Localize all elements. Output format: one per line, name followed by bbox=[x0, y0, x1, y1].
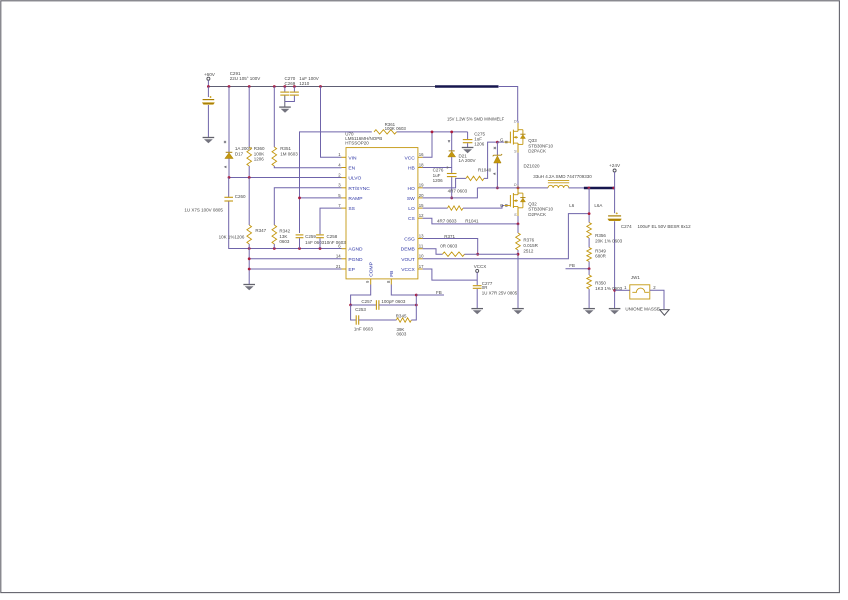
svg-text:2512: 2512 bbox=[523, 248, 534, 253]
svg-text:VIN: VIN bbox=[348, 155, 357, 161]
svg-text:L6: L6 bbox=[569, 203, 575, 208]
svg-text:12: 12 bbox=[419, 213, 424, 218]
junctions on AGND line bbox=[248, 247, 322, 250]
terminal +24V bbox=[609, 163, 621, 188]
diode D21 bbox=[448, 131, 476, 168]
wire +60V to Q33 drain bbox=[498, 87, 518, 122]
svg-text:RAMP: RAMP bbox=[348, 196, 362, 202]
capacitor C291 bbox=[202, 71, 260, 137]
svg-text:20: 20 bbox=[419, 193, 424, 198]
wire CS bbox=[423, 218, 520, 225]
svg-text:C269: C269 bbox=[285, 81, 296, 86]
svg-text:1U X7S 100V 0805: 1U X7S 100V 0805 bbox=[184, 208, 223, 213]
svg-text:2: 2 bbox=[653, 285, 656, 290]
svg-text:10K 1%1206: 10K 1%1206 bbox=[219, 234, 245, 239]
svg-text:1uF: 1uF bbox=[433, 173, 441, 178]
capacitor C259 bbox=[296, 234, 325, 248]
svg-text:+24V: +24V bbox=[609, 163, 621, 168]
svg-text:EN: EN bbox=[348, 166, 355, 172]
svg-text:D17: D17 bbox=[235, 151, 244, 156]
capacitor C277 bbox=[473, 281, 518, 309]
svg-text:11: 11 bbox=[419, 244, 424, 249]
svg-text:R1040: R1040 bbox=[478, 167, 492, 172]
svg-text:20K 1% 0603: 20K 1% 0603 bbox=[595, 238, 623, 243]
svg-text:FB: FB bbox=[389, 271, 395, 277]
svg-text:R351: R351 bbox=[280, 146, 291, 151]
svg-text:DZ1020: DZ1020 bbox=[524, 164, 541, 169]
svg-text:9: 9 bbox=[365, 280, 370, 283]
transistor Q33 bbox=[497, 118, 553, 187]
ground below C277 bbox=[471, 309, 483, 315]
svg-text:STB30NF10: STB30NF10 bbox=[528, 207, 553, 212]
wire HB bbox=[423, 166, 452, 169]
svg-text:VCC: VCC bbox=[404, 155, 415, 161]
svg-text:100K: 100K bbox=[254, 151, 265, 156]
transistor Q32 bbox=[500, 182, 554, 224]
svg-text:ULVO: ULVO bbox=[348, 176, 361, 182]
wire VOUT sense bbox=[423, 214, 589, 259]
resistor R1040 bbox=[423, 142, 498, 193]
svg-text:CS: CS bbox=[408, 216, 416, 222]
svg-text:18: 18 bbox=[419, 162, 424, 167]
svg-text:G: G bbox=[500, 138, 504, 143]
resistor R350 bbox=[587, 269, 623, 309]
resistor R361 bbox=[374, 122, 468, 134]
svg-text:10nF 0603: 10nF 0603 bbox=[324, 240, 346, 245]
svg-text:R347: R347 bbox=[255, 228, 266, 233]
resistor R345 bbox=[396, 305, 417, 337]
svg-text:4: 4 bbox=[338, 162, 341, 167]
net FB stub bbox=[416, 290, 444, 295]
capacitor C253 bbox=[351, 305, 397, 332]
terminal +60V bbox=[204, 72, 216, 87]
terminal VCCX bbox=[423, 264, 487, 285]
svg-text:100uF EL 50V BESR 8x12: 100uF EL 50V BESR 8x12 bbox=[638, 224, 692, 229]
svg-text:16: 16 bbox=[419, 152, 424, 157]
svg-text:680R: 680R bbox=[595, 254, 607, 259]
svg-text:HO: HO bbox=[407, 186, 415, 192]
svg-text:14: 14 bbox=[336, 254, 341, 259]
svg-text:LO: LO bbox=[408, 206, 415, 212]
svg-text:STB30NF10: STB30NF10 bbox=[528, 143, 553, 148]
junctions on +60V bus bbox=[207, 85, 322, 88]
svg-text:7: 7 bbox=[338, 203, 341, 208]
svg-text:1: 1 bbox=[624, 285, 627, 290]
capacitor C274 bbox=[608, 188, 691, 309]
resistor R342 bbox=[272, 188, 342, 249]
net FB flag bbox=[566, 263, 591, 270]
svg-text:33uH 4.2A SMD 7447709330: 33uH 4.2A SMD 7447709330 bbox=[533, 174, 592, 179]
svg-text:0603: 0603 bbox=[279, 239, 290, 244]
svg-text:VCCX: VCCX bbox=[401, 267, 415, 273]
svg-text:0603: 0603 bbox=[397, 332, 407, 337]
wire CSG bbox=[423, 234, 480, 255]
svg-text:1206: 1206 bbox=[433, 178, 444, 183]
wire VCC pin to rail bbox=[423, 131, 434, 158]
resistor R371 bbox=[423, 244, 518, 257]
wire SW pin bbox=[423, 188, 478, 198]
resistor R351 bbox=[272, 87, 342, 168]
svg-text:FB: FB bbox=[569, 263, 575, 268]
svg-text:100K 0603: 100K 0603 bbox=[385, 126, 407, 131]
capacitor C275 bbox=[463, 132, 486, 148]
svg-text:1nF 0603: 1nF 0603 bbox=[305, 240, 325, 245]
wire VIN bbox=[321, 87, 342, 158]
wire COMP bbox=[349, 285, 371, 307]
svg-text:D2PACK: D2PACK bbox=[528, 149, 546, 154]
svg-text:RT/SYNC: RT/SYNC bbox=[348, 186, 370, 192]
svg-text:R350: R350 bbox=[595, 280, 606, 285]
resistor R356 bbox=[587, 223, 623, 248]
svg-text:HTSSOP20: HTSSOP20 bbox=[345, 140, 369, 145]
zener DZ1020 bbox=[493, 141, 540, 190]
svg-text:C259: C259 bbox=[305, 234, 316, 239]
svg-text:C253: C253 bbox=[355, 307, 366, 312]
svg-text:R1041: R1041 bbox=[465, 219, 479, 224]
resistor R1041 bbox=[423, 206, 505, 224]
svg-text:0R: 0R bbox=[482, 285, 488, 290]
label zener rating bbox=[447, 117, 505, 122]
wire AGND PGND EP bbox=[248, 249, 342, 285]
svg-text:C258: C258 bbox=[327, 234, 338, 239]
wire divider top bbox=[569, 188, 602, 223]
svg-text:17: 17 bbox=[419, 264, 424, 269]
svg-text:22U 105° 100V: 22U 105° 100V bbox=[230, 76, 261, 81]
svg-text:C260: C260 bbox=[235, 194, 246, 199]
svg-text:EP: EP bbox=[348, 267, 355, 273]
svg-text:Q32: Q32 bbox=[528, 201, 537, 206]
svg-text:19: 19 bbox=[419, 183, 424, 188]
svg-text:R360: R360 bbox=[254, 146, 265, 151]
svg-text:R342: R342 bbox=[279, 228, 290, 233]
ground below C270 bbox=[279, 107, 291, 113]
resistor R349 bbox=[587, 248, 607, 269]
svg-text:100pF 0603: 100pF 0603 bbox=[381, 299, 406, 304]
wire FB pin bbox=[391, 285, 417, 306]
ground below R350 bbox=[583, 309, 595, 315]
svg-text:HB: HB bbox=[408, 166, 415, 172]
diode D17 bbox=[224, 87, 252, 178]
svg-text:SS: SS bbox=[348, 206, 355, 212]
svg-text:CSG: CSG bbox=[404, 237, 415, 243]
svg-text:D: D bbox=[514, 118, 517, 123]
inductor L6 33uH bbox=[533, 174, 592, 188]
svg-text:10: 10 bbox=[419, 254, 424, 259]
capacitor C269 bbox=[285, 81, 310, 102]
svg-text:FB: FB bbox=[436, 290, 442, 295]
resistor R360 bbox=[247, 87, 265, 178]
svg-text:S: S bbox=[514, 149, 517, 154]
wire ULVO line bbox=[228, 176, 342, 179]
svg-text:AGND: AGND bbox=[348, 247, 363, 253]
resistor R376 shunt bbox=[516, 224, 539, 309]
svg-text:S: S bbox=[514, 212, 517, 217]
svg-text:15V 1.2W 5% SMD MINIMELF: 15V 1.2W 5% SMD MINIMELF bbox=[447, 117, 505, 122]
svg-text:13K: 13K bbox=[279, 234, 287, 239]
svg-text:3: 3 bbox=[338, 183, 341, 188]
wire +60V bus bbox=[208, 86, 436, 88]
capacitor C260 bbox=[184, 178, 341, 249]
svg-text:C276: C276 bbox=[433, 168, 444, 173]
op-amp U70 LM5116 bbox=[336, 131, 424, 284]
svg-text:R371: R371 bbox=[444, 234, 455, 239]
svg-text:0.015R: 0.015R bbox=[523, 243, 538, 248]
svg-text:1U X7R 25V 0805: 1U X7R 25V 0805 bbox=[482, 291, 518, 296]
svg-text:Q33: Q33 bbox=[528, 138, 537, 143]
svg-text:C257: C257 bbox=[361, 299, 372, 304]
svg-text:8: 8 bbox=[386, 280, 391, 283]
svg-text:13: 13 bbox=[419, 233, 424, 238]
svg-text:15: 15 bbox=[419, 203, 424, 208]
svg-text:5: 5 bbox=[338, 193, 341, 198]
svg-text:PGND: PGND bbox=[348, 257, 363, 263]
svg-text:21: 21 bbox=[336, 264, 341, 269]
wire switch node bbox=[477, 187, 548, 190]
ground below C275 bbox=[462, 148, 474, 154]
svg-text:COMP: COMP bbox=[368, 262, 374, 277]
svg-text:R376: R376 bbox=[523, 238, 534, 243]
wire RAMP node bbox=[298, 132, 372, 233]
svg-text:1M 0603: 1M 0603 bbox=[280, 151, 298, 156]
svg-text:1206: 1206 bbox=[474, 142, 485, 147]
svg-text:UNIONE MASSE: UNIONE MASSE bbox=[625, 307, 660, 312]
svg-text:VCCX: VCCX bbox=[474, 264, 487, 269]
svg-text:4R7 0603: 4R7 0603 bbox=[448, 188, 468, 193]
svg-text:SW: SW bbox=[407, 196, 415, 202]
wire output node thick bbox=[584, 187, 615, 190]
svg-text:+60V: +60V bbox=[204, 72, 216, 77]
svg-text:1: 1 bbox=[338, 152, 341, 157]
ground below C274 bbox=[609, 309, 621, 315]
svg-text:1210: 1210 bbox=[299, 81, 310, 86]
svg-text:C274: C274 bbox=[621, 224, 632, 229]
svg-text:L6A: L6A bbox=[594, 203, 602, 208]
svg-text:1206: 1206 bbox=[254, 157, 265, 162]
capacitor C257 bbox=[351, 299, 418, 310]
svg-text:1nF 0603: 1nF 0603 bbox=[354, 327, 374, 332]
wire inductor to output bbox=[569, 187, 585, 189]
ground below C291 bbox=[203, 138, 215, 144]
svg-text:JW1: JW1 bbox=[631, 275, 640, 280]
capacitor C276 bbox=[433, 168, 457, 200]
chassis ground bbox=[660, 310, 670, 316]
svg-text:0R 0603: 0R 0603 bbox=[440, 244, 458, 249]
svg-text:R345: R345 bbox=[396, 313, 407, 318]
wire +60V bus thick segment bbox=[435, 85, 499, 88]
jumper JW1 bbox=[615, 275, 664, 312]
svg-text:D2PACK: D2PACK bbox=[528, 212, 546, 217]
svg-text:D: D bbox=[514, 182, 517, 187]
capacitor C270 bbox=[280, 76, 318, 107]
svg-text:VOUT: VOUT bbox=[401, 257, 415, 263]
resistor R347 bbox=[219, 178, 267, 249]
ground below R376 bbox=[512, 309, 524, 315]
svg-text:2: 2 bbox=[338, 173, 341, 178]
svg-text:DEMB: DEMB bbox=[401, 247, 415, 253]
svg-text:1A 200V: 1A 200V bbox=[459, 158, 476, 163]
capacitor C258 bbox=[316, 208, 346, 248]
svg-text:G: G bbox=[500, 203, 504, 208]
svg-text:4R7 0603: 4R7 0603 bbox=[437, 219, 457, 224]
ground below AGND bbox=[243, 285, 255, 291]
